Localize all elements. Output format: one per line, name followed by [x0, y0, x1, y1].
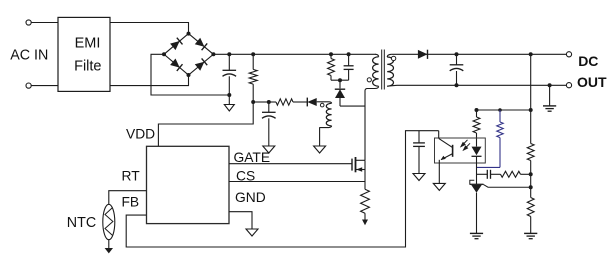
- label pin FB: [122, 195, 140, 210]
- resistor opto LED series: [473, 110, 480, 146]
- wire MOSFET source to CS node: [364, 170, 366, 182]
- wire GND pin: [229, 212, 252, 229]
- resistor current sense: [361, 182, 370, 220]
- svg-text:GND: GND: [235, 190, 266, 205]
- optocoupler light arrows: [461, 140, 470, 150]
- diode bridge D-bottomleft (left vertex to bottom): [170, 59, 182, 71]
- thermistor NTC: [103, 204, 115, 248]
- capacitor snubber film: [344, 54, 354, 80]
- inductor transformer primary winding: [373, 54, 379, 86]
- junction VDD node left: [251, 100, 255, 104]
- wire AC top terminal to EMI filter: [31, 22, 58, 24]
- resistor LED bypass (blue): [497, 110, 503, 167]
- wire VDD trace to IC: [158, 102, 253, 146]
- junction opto LED resistor top: [475, 108, 479, 112]
- label OUT: [577, 74, 607, 90]
- diode VDD rectifier (from aux winding): [307, 98, 316, 107]
- svg-text:Filte: Filte: [74, 59, 101, 75]
- label pin CS: [236, 169, 255, 184]
- label AC IN: [10, 47, 48, 63]
- svg-text:AC IN: AC IN: [10, 47, 48, 63]
- wire snubber bottom bar: [331, 79, 349, 81]
- ground FB cap: [413, 174, 425, 181]
- node aux winding phase dot: [320, 103, 324, 107]
- wire diode to aux winding: [317, 101, 329, 103]
- junction bridge bottom: [187, 73, 191, 77]
- svg-text:RT: RT: [122, 169, 141, 184]
- svg-text:NTC: NTC: [67, 215, 96, 231]
- junction snubber cap top: [347, 52, 351, 56]
- svg-text:DC: DC: [578, 53, 598, 69]
- junction snubber diode: [338, 78, 342, 82]
- ground sense resistor arrow: [362, 220, 368, 226]
- junction bridge right: [211, 52, 215, 56]
- junction VDD cap top: [267, 100, 271, 104]
- ground VDD cap: [263, 146, 275, 153]
- ground NTC arrow: [105, 248, 113, 253]
- diode output rectifier: [418, 50, 428, 59]
- junction output cap bottom: [455, 83, 459, 87]
- wire VDD node: [253, 101, 269, 103]
- wire TL431 ref to divider: [484, 185, 531, 188]
- EMI filter block: [58, 17, 110, 91]
- svg-text:EMI: EMI: [75, 36, 101, 52]
- inductor transformer secondary winding: [387, 54, 397, 86]
- junction bridge left: [162, 52, 166, 56]
- wire EMI filter to bridge bottom: [110, 75, 189, 86]
- transformer core: [382, 50, 385, 90]
- resistor snubber: [328, 54, 335, 80]
- junction bulk cap bottom: [227, 93, 231, 97]
- svg-text:VDD: VDD: [126, 127, 155, 142]
- junction divider mid / compensation: [529, 172, 533, 176]
- ground opto emitter: [433, 183, 445, 190]
- label NTC: [67, 215, 96, 231]
- capacitor output electrolytic: [450, 54, 464, 85]
- transistor power MOSFET: [352, 157, 365, 172]
- junction startup resistor top: [251, 52, 255, 56]
- wire clamp to MOSFET drain: [340, 105, 365, 107]
- diode snubber clamp (pointing up): [335, 80, 345, 106]
- resistor feedback divider upper: [527, 144, 534, 198]
- ground primary (bulk cap): [224, 95, 234, 111]
- wire RT trace: [109, 191, 147, 205]
- wire blue resistor to TL431 cathode: [477, 166, 500, 168]
- junction bulk cap top: [227, 52, 231, 56]
- node DC output terminal (-): [566, 83, 571, 88]
- diode bridge D-bottomright (bottom to right vertex): [195, 58, 207, 70]
- svg-text:FB: FB: [122, 195, 140, 210]
- junction divider mid / TL431 ref: [529, 185, 533, 189]
- wire aux winding to ground: [320, 126, 332, 146]
- wire AC bottom terminal to EMI filter: [31, 85, 58, 87]
- junction output cap top: [455, 52, 459, 56]
- node primary phase dot: [367, 78, 371, 82]
- wire bridge negative to primary ground rail: [151, 54, 229, 95]
- node AC neutral input terminal (bottom): [26, 83, 31, 88]
- resistor startup (HV to VDD): [249, 54, 257, 102]
- label pin GATE: [234, 150, 271, 165]
- node secondary phase dot: [391, 56, 395, 60]
- capacitor VDD electrolytic: [262, 102, 276, 146]
- ground secondary earth (divider): [524, 233, 537, 238]
- wire feedback top line: [477, 109, 531, 111]
- wire GATE trace: [229, 163, 352, 165]
- svg-text:OUT: OUT: [577, 74, 607, 90]
- ground secondary earth (TL431): [470, 233, 483, 238]
- svg-text:GATE: GATE: [234, 150, 271, 165]
- junction bridge top: [187, 32, 191, 36]
- label DC: [578, 53, 598, 69]
- shunt regulator TL431: [470, 180, 484, 233]
- junction feedback rail top: [529, 52, 533, 56]
- junction feedback top line: [529, 108, 533, 112]
- wire HV positive rail: [213, 53, 376, 55]
- wire VDD node to resistor: [269, 101, 276, 103]
- wire secondary bottom rail: [397, 84, 566, 86]
- optocoupler phototransistor: [439, 131, 453, 184]
- wire primary bottom to MOSFET drain: [365, 86, 379, 160]
- wire bridge diamond: [164, 34, 213, 75]
- capacitor bulk electrolytic: [223, 54, 237, 95]
- wire feedback divider rail: [530, 54, 532, 143]
- capacitor compensation: [477, 170, 501, 179]
- optocoupler box: [435, 138, 486, 163]
- resistor feedback divider lower: [527, 198, 534, 234]
- diode bridge D-topleft (left vertex to top): [170, 38, 182, 50]
- label pin GND: [235, 190, 266, 205]
- node DC output terminal (+): [566, 52, 571, 57]
- wire FB bus (IC FB pin to optocoupler): [126, 131, 439, 247]
- junction output ground: [548, 83, 552, 87]
- resistor compensation: [501, 171, 531, 177]
- label pin VDD: [126, 127, 155, 142]
- wire CS trace: [229, 181, 365, 183]
- diode bridge D-topright (top to right vertex): [195, 38, 207, 50]
- ground secondary earth (output): [543, 85, 556, 111]
- ground IC GND pin: [246, 229, 258, 236]
- capacitor FB filter: [413, 131, 425, 174]
- junction blue resistor top: [498, 108, 502, 112]
- inductor auxiliary winding: [326, 102, 331, 126]
- node AC line input terminal (top): [26, 20, 31, 25]
- optocoupler LED: [472, 146, 482, 184]
- junction snubber resistor top: [329, 52, 333, 56]
- label pin RT: [122, 169, 141, 184]
- wire EMI filter to bridge top: [110, 23, 189, 34]
- ground aux winding: [314, 146, 326, 153]
- wire secondary top rail: [391, 53, 566, 55]
- resistor VDD series: [276, 99, 307, 105]
- IC controller block: [147, 146, 230, 223]
